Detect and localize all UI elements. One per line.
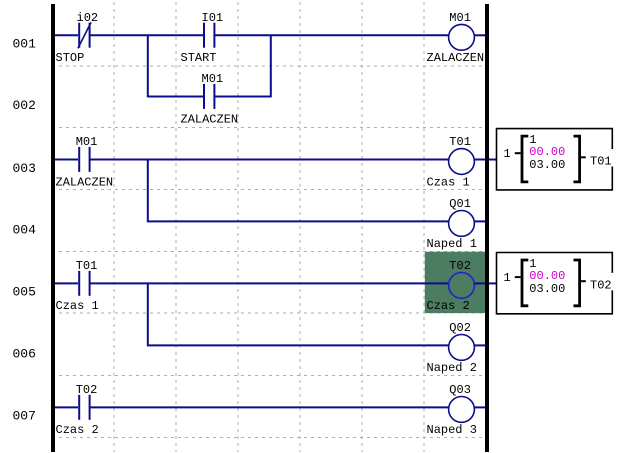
wire branch down (rung3 to rung4) xyxy=(147,159,149,223)
wire rung3: rail to contact M01 xyxy=(53,159,78,161)
wire rung7: rail to contact T02 xyxy=(53,406,78,408)
svg-text:1: 1 xyxy=(504,147,511,161)
wire rung7: coil to right rail xyxy=(474,406,485,408)
grid vertical dashed lines xyxy=(114,2,424,452)
svg-text:005: 005 xyxy=(13,285,36,300)
wire rung4: coil to right rail xyxy=(474,220,485,222)
svg-text:004: 004 xyxy=(13,223,37,238)
wire rung1: i02 to I01 (junction at branch) xyxy=(90,34,204,36)
svg-text:i02: i02 xyxy=(77,11,99,25)
svg-text:ZALACZEN: ZALACZEN xyxy=(56,175,114,189)
svg-text:00.00: 00.00 xyxy=(529,145,565,159)
grid horizontal dashed lines xyxy=(52,66,486,438)
svg-text:Czas 1: Czas 1 xyxy=(56,299,99,313)
svg-text:START: START xyxy=(181,51,217,65)
svg-text:T02: T02 xyxy=(449,259,471,273)
wire rung3: rail to timer block T01 xyxy=(488,159,497,161)
svg-text:ZALACZEN: ZALACZEN xyxy=(181,112,239,126)
coil T02 (selected) xyxy=(449,273,475,299)
selected cell highlight (T02 coil cell) xyxy=(425,252,485,313)
wire rung5: rail to timer block T02 xyxy=(488,282,497,284)
svg-text:00.00: 00.00 xyxy=(529,269,565,283)
svg-text:Naped 2: Naped 2 xyxy=(427,361,477,375)
svg-text:Naped 3: Naped 3 xyxy=(427,423,477,437)
svg-text:Czas 1: Czas 1 xyxy=(427,175,470,189)
contact M01 (NO, seal-in) xyxy=(204,84,214,109)
wire rung5: rail to contact T01 xyxy=(53,282,78,284)
wire rung1: coil to right rail xyxy=(474,34,485,36)
contact M01 (NO rung3) xyxy=(79,147,89,172)
svg-text:M01: M01 xyxy=(202,72,224,86)
wire rung7: contact to coil Q03 xyxy=(90,406,449,408)
coil M01 xyxy=(449,24,475,50)
contact T01 (NO) xyxy=(79,271,89,296)
wire rung3: coil to right rail xyxy=(474,159,485,161)
svg-text:M01: M01 xyxy=(76,135,98,149)
svg-text:1: 1 xyxy=(504,271,511,285)
svg-text:001: 001 xyxy=(13,37,37,52)
svg-text:T01: T01 xyxy=(590,155,612,169)
timer block T02 xyxy=(497,253,613,314)
svg-text:Q02: Q02 xyxy=(449,321,471,335)
svg-text:M01: M01 xyxy=(449,11,471,25)
svg-text:007: 007 xyxy=(13,409,36,424)
wire branch down left (rung1 to rung2) xyxy=(147,34,149,97)
svg-text:Q01: Q01 xyxy=(449,197,471,211)
wire rung2: M01 to branch up xyxy=(215,96,271,98)
contact T02 (NO) xyxy=(79,395,89,420)
wire rung5: contact to coil T02 xyxy=(90,282,449,284)
svg-text:Q03: Q03 xyxy=(449,383,471,397)
coil Q02 xyxy=(449,335,475,361)
wire rung6: branch to coil Q02 xyxy=(148,344,449,346)
contact I01 (NO) xyxy=(204,23,214,48)
svg-text:Czas 2: Czas 2 xyxy=(56,423,99,437)
svg-text:STOP: STOP xyxy=(56,51,85,65)
svg-text:03.00: 03.00 xyxy=(529,158,565,172)
left power rail xyxy=(51,4,55,452)
svg-text:I01: I01 xyxy=(202,11,224,25)
wire rung3: contact to coil T01 xyxy=(90,159,449,161)
wire branch down (rung5 to rung6) xyxy=(147,283,149,347)
coil Q01 xyxy=(449,211,475,237)
wire rung1: rail to contact i02 xyxy=(53,34,78,36)
coil Q03 xyxy=(449,397,475,423)
svg-text:T01: T01 xyxy=(449,135,471,149)
coil T01 xyxy=(449,149,475,175)
wire rung1: I01 to coil M01 xyxy=(215,34,449,36)
svg-text:03.00: 03.00 xyxy=(529,282,565,296)
svg-text:Naped 1: Naped 1 xyxy=(427,237,477,251)
svg-text:006: 006 xyxy=(13,347,36,362)
wire rung4: branch to coil Q01 xyxy=(148,220,449,222)
wire rung6: coil to right rail xyxy=(474,344,485,346)
wire branch up right (rung2 to rung1) xyxy=(270,34,272,97)
wire rung2: branch to contact M01 xyxy=(148,96,204,98)
svg-text:T02: T02 xyxy=(590,278,612,292)
svg-text:003: 003 xyxy=(13,161,36,176)
svg-text:002: 002 xyxy=(13,98,36,113)
right power rail xyxy=(485,4,489,452)
timer block T01 xyxy=(497,129,613,190)
svg-text:T01: T01 xyxy=(76,259,98,273)
contact i02 (NC) xyxy=(78,22,91,48)
svg-text:T02: T02 xyxy=(76,383,98,397)
wire rung5: coil to right rail xyxy=(474,282,485,284)
svg-text:Czas 2: Czas 2 xyxy=(427,299,470,313)
svg-text:ZALACZEN: ZALACZEN xyxy=(427,51,485,65)
